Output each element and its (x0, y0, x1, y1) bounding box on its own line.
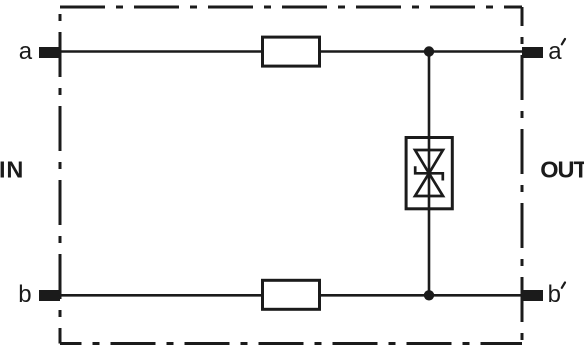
svg-text:b: b (18, 281, 31, 308)
svg-text:OUT: OUT (540, 157, 584, 183)
svg-text:IN: IN (0, 157, 24, 183)
svg-text:b: b (548, 281, 561, 308)
svg-text:a: a (19, 38, 33, 65)
svg-text:a: a (548, 38, 562, 65)
